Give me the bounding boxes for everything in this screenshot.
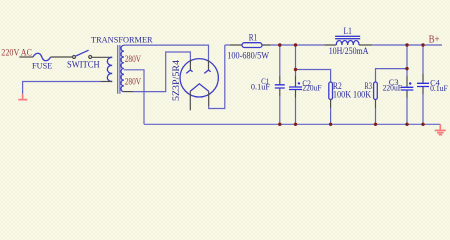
wire primary bottom to terminal [101, 81, 112, 83]
node junction dots branch [294, 68, 297, 71]
rectifier tube V1 envelope [180, 59, 218, 97]
svg-text:SWITCH: SWITCH [67, 59, 100, 69]
resistor R2 [329, 82, 333, 100]
svg-text:10H/250mA: 10H/250mA [329, 46, 369, 56]
svg-text:5Z3P/5R4: 5Z3P/5R4 [171, 59, 181, 101]
wire secondary bottom tap to tube left plate [124, 91, 133, 93]
capacitor C1 [275, 85, 285, 88]
svg-text:280V: 280V [125, 77, 142, 87]
capacitor C2 wires [295, 45, 297, 76]
node junction dots top rail [278, 43, 281, 46]
svg-text:TRANSFORMER: TRANSFORMER [91, 35, 153, 45]
wire fuse to switch [51, 56, 73, 58]
resistor R1 leads [230, 44, 271, 46]
wire C2 to R2 branch [296, 70, 331, 83]
svg-text:100K: 100K [333, 89, 352, 99]
inductor L1 [336, 41, 359, 46]
fuse FUSE [33, 53, 51, 61]
capacitor C2 [289, 87, 302, 90]
tube plate wires [190, 60, 208, 70]
wire switch to transformer primary [92, 56, 113, 58]
wire secondary top tap to tube right plate [124, 45, 209, 60]
wire AC live lead-in [19, 56, 33, 58]
capacitor C4 [417, 83, 429, 86]
wire B+ rail segment 1 [225, 44, 230, 46]
svg-text:L1: L1 [344, 26, 352, 36]
tube left plate [186, 70, 192, 73]
capacitor C3 [401, 87, 414, 90]
capacitor C4 wires [422, 45, 424, 74]
transformer primary winding [107, 57, 112, 81]
svg-text:280V: 280V [125, 54, 142, 64]
wire C3 to R3 branch [376, 69, 408, 82]
svg-text:B+: B+ [429, 34, 440, 45]
resistor R3 [374, 82, 378, 100]
ground [435, 124, 446, 134]
svg-text:R1: R1 [249, 33, 257, 43]
wire ground rail [144, 123, 440, 125]
svg-text:220uF: 220uF [302, 83, 322, 92]
tube right plate [204, 70, 210, 73]
resistor R1 [242, 43, 262, 48]
capacitor C1 wires [279, 45, 281, 76]
switch SWITCH [73, 56, 76, 59]
svg-text:0.1uF: 0.1uF [430, 84, 448, 93]
tube filament [190, 84, 208, 92]
svg-text:FUSE: FUSE [32, 60, 52, 70]
svg-text:220uF: 220uF [383, 83, 403, 92]
wire filament output to B+ rail [208, 91, 210, 106]
inductor L1 leads [324, 44, 372, 46]
node junction dots ground rail [278, 123, 281, 126]
wire B+ rail segment 2 [271, 44, 325, 46]
wire filament left stub [189, 91, 191, 110]
wire secondary center tap to ground rail [124, 70, 144, 125]
terminal AC neutral [18, 94, 27, 99]
svg-text:100-680/5W: 100-680/5W [227, 51, 269, 61]
inductor L1 core [335, 36, 360, 38]
capacitor C3 wires [406, 45, 408, 76]
wire B+ rail segment 3 [372, 44, 442, 46]
transformer core [118, 45, 120, 94]
transformer secondary winding [121, 45, 124, 91]
svg-text:100K: 100K [353, 89, 372, 99]
svg-text:0.1uF: 0.1uF [251, 82, 271, 91]
